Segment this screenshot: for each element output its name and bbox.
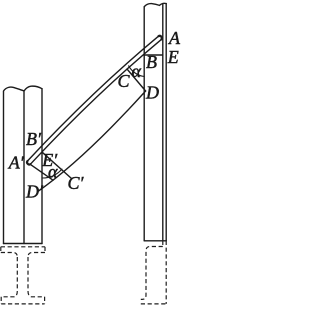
svg-text:D: D [145,83,159,103]
svg-text:D′: D′ [25,182,44,202]
left column right edge [41,89,43,244]
right foot flange underside and stem left [141,247,163,300]
left foot stem left line [16,257,18,291]
svg-text:A: A [168,28,181,48]
right column inner wall line [162,4,164,241]
right column bottom end line [144,240,166,242]
left column left edge [3,92,5,244]
left column middle line [23,91,25,244]
left foot top flange left side [0,247,2,253]
svg-text:B′: B′ [26,129,42,149]
left foot dashed I-profile [1,247,45,304]
left column wavy top break line [4,86,43,91]
angle arc alpha at E' [42,169,62,178]
left column bottom end line [4,243,43,245]
segment E' to C' [42,152,71,178]
right foot inner wall stub [162,241,164,247]
left foot bottom flange top left [1,291,17,297]
left foot stem right line [27,257,29,291]
brace bar top edge lower line [30,39,161,164]
horizontal line at E [144,54,163,56]
svg-text:C′: C′ [68,173,85,193]
right column right edge [165,4,167,241]
brace bar rounded tip right [159,36,162,40]
left foot top flange right side [44,247,46,253]
svg-text:E: E [167,47,179,67]
angle arc alpha at B [129,66,145,77]
svg-text:A′: A′ [8,153,25,173]
left foot bottom flange bottom line [1,303,44,305]
svg-text:B: B [146,52,157,72]
brace bar lower long edge [39,91,146,191]
brace bar left end face [30,164,53,180]
right column left edge [143,7,145,241]
right foot bottom flange bottom line [141,303,166,305]
left foot bottom flange left side [0,297,2,304]
segment C to D [127,69,146,91]
left foot top flange underside left [1,253,18,258]
brace bar top edge upper line [28,36,159,161]
right column wavy top break line [144,3,166,6]
left foot top flange underside right [28,253,45,258]
brace bar rounded tip left [27,161,30,165]
left foot bottom flange top right [28,291,45,297]
svg-text:C: C [118,71,131,91]
left foot top flange top line [1,246,45,248]
right foot outer edge dashed continuation [165,241,167,304]
svg-text:α: α [132,61,142,81]
svg-text:α: α [48,161,58,181]
right foot dashed half profile [141,241,166,304]
left foot bottom flange right side [44,297,46,304]
